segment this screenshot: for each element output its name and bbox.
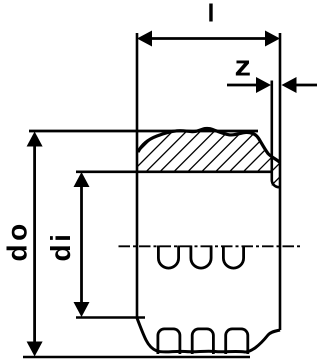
arrow l left	[137, 31, 152, 47]
arrow di top (points up)	[74, 172, 90, 187]
bottom break line (freehand wavy)	[137, 318, 280, 352]
svg-text:l: l	[208, 0, 215, 28]
right edge line B / l+z extension	[279, 33, 282, 330]
do dimension line	[33, 138, 36, 350]
svg-text:di: di	[45, 232, 76, 262]
arrow do top (points up)	[27, 132, 43, 147]
U slot 2	[191, 246, 211, 269]
top break line (freehand wavy)	[138, 128, 280, 162]
di bottom extension line	[76, 316, 145, 319]
di dimension line	[80, 178, 83, 311]
do bottom extension line	[23, 356, 250, 359]
U slot 3	[223, 246, 243, 269]
arrow l right	[265, 31, 280, 47]
U slot 1	[158, 246, 178, 269]
bottom tooth 1	[158, 329, 180, 354]
arrow di bottom (points down)	[74, 302, 90, 317]
svg-text:do: do	[2, 220, 33, 261]
dimension z right tail	[295, 84, 317, 87]
flange inner edge line A with rounded bottom	[272, 81, 279, 188]
di top extension line (also hatch bottom)	[76, 171, 273, 174]
arrow z right (points left)	[282, 77, 297, 93]
bottom tooth 2	[192, 329, 213, 354]
svg-text:z: z	[235, 51, 252, 83]
part left edge / l extension line	[136, 33, 139, 318]
do top extension line	[29, 130, 258, 133]
dimension z left tail	[227, 84, 258, 87]
bottom tooth 3	[226, 329, 248, 354]
dimension line l	[144, 37, 273, 40]
arrow z left (points right)	[256, 77, 271, 93]
centerline (dash-dot)	[119, 245, 302, 247]
arrow do bottom (points down)	[27, 342, 43, 357]
hatch lines 45deg	[72, 120, 320, 190]
